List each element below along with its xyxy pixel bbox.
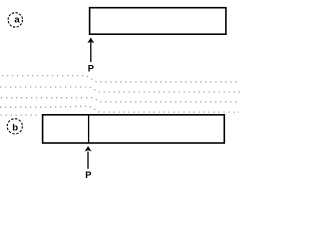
divider line in block b: [88, 115, 90, 143]
svg-text:P: P: [85, 170, 91, 180]
dotted layer line 4: [0, 106, 239, 112]
force arrow P (a): [87, 38, 94, 63]
svg-text:b: b: [12, 122, 18, 133]
block b (rectangle): [43, 115, 225, 143]
dotted layer line 3: [0, 98, 240, 102]
circled label b: [7, 119, 22, 134]
svg-text:a: a: [14, 15, 20, 26]
dotted layer line 2: [0, 87, 240, 92]
dotted layer line 1 (left high, step down, right low): [0, 76, 240, 82]
circled label a: [8, 13, 22, 27]
beam a (rectangle): [90, 8, 226, 35]
svg-text:P: P: [88, 63, 94, 73]
force arrow P (b): [85, 146, 92, 169]
dotted ground line left of block b: [0, 114, 38, 116]
